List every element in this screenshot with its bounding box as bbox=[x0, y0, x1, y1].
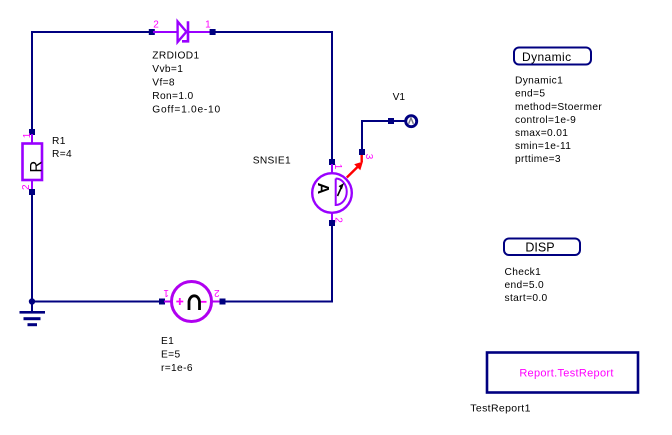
svg-text:Report.TestReport: Report.TestReport bbox=[519, 367, 613, 379]
current sensor SNSIE1 bbox=[312, 159, 352, 226]
svg-text:Vf=8: Vf=8 bbox=[152, 78, 175, 89]
svg-text:end=5: end=5 bbox=[515, 89, 545, 100]
svg-text:V1: V1 bbox=[393, 92, 406, 103]
svg-text:method=Stoermer: method=Stoermer bbox=[515, 102, 602, 113]
Dynamic parameter labels bbox=[515, 76, 602, 166]
wire left column lower bbox=[31, 193, 33, 303]
svg-text:control=1e-9: control=1e-9 bbox=[515, 115, 576, 126]
svg-text:2: 2 bbox=[332, 217, 343, 223]
svg-text:DISP: DISP bbox=[525, 241, 554, 255]
svg-text:1: 1 bbox=[22, 132, 33, 138]
wire bottom row left segment bbox=[31, 301, 162, 303]
wire top row left segment bbox=[31, 31, 152, 33]
svg-text:Goff=1.0e-10: Goff=1.0e-10 bbox=[152, 105, 221, 116]
wire left column upper bbox=[31, 31, 33, 131]
svg-text:smin=1e-11: smin=1e-11 bbox=[515, 141, 571, 152]
svg-text:2: 2 bbox=[214, 287, 220, 298]
E1 parameter labels bbox=[161, 336, 193, 374]
svg-text:R=4: R=4 bbox=[52, 149, 72, 160]
svg-text:A: A bbox=[314, 183, 331, 195]
svg-text:E=5: E=5 bbox=[161, 350, 180, 361]
svg-text:end=5.0: end=5.0 bbox=[505, 280, 545, 291]
wire top row right segment bbox=[212, 31, 333, 33]
DISP box bbox=[504, 239, 580, 256]
svg-text:Vvb=1: Vvb=1 bbox=[152, 64, 183, 75]
svg-text:E1: E1 bbox=[161, 336, 174, 347]
V1 connector bbox=[359, 116, 417, 155]
svg-text:Dynamic1: Dynamic1 bbox=[515, 76, 563, 87]
svg-text:2: 2 bbox=[153, 20, 159, 31]
svg-text:2: 2 bbox=[21, 184, 32, 190]
ground symbol bbox=[20, 302, 46, 327]
resistor R1 bbox=[23, 129, 46, 195]
svg-text:1: 1 bbox=[163, 287, 169, 298]
svg-text:TestReport1: TestReport1 bbox=[470, 402, 530, 414]
svg-text:start=0.0: start=0.0 bbox=[505, 293, 548, 304]
svg-text:1: 1 bbox=[332, 164, 343, 170]
wire right column lower bbox=[331, 223, 333, 302]
svg-text:smax=0.01: smax=0.01 bbox=[515, 128, 568, 139]
wire bottom row right segment bbox=[222, 301, 333, 303]
svg-text:prttime=3: prttime=3 bbox=[515, 154, 561, 165]
wire V1 horizontal bbox=[361, 120, 405, 122]
DISP parameter labels bbox=[505, 267, 548, 304]
svg-text:Ron=1.0: Ron=1.0 bbox=[152, 91, 193, 102]
diode parameter labels bbox=[152, 51, 221, 116]
Dynamic experiment box bbox=[514, 48, 591, 65]
wire right column upper bbox=[331, 31, 333, 161]
svg-text:1: 1 bbox=[205, 20, 211, 31]
sensor red arrow to pin 3 bbox=[347, 153, 363, 178]
svg-text:R: R bbox=[28, 161, 46, 173]
svg-text:Dynamic: Dynamic bbox=[522, 50, 571, 64]
svg-text:Check1: Check1 bbox=[505, 267, 542, 278]
svg-text:R1: R1 bbox=[52, 136, 66, 147]
svg-text:SNSIE1: SNSIE1 bbox=[253, 155, 291, 166]
voltage source E1 bbox=[159, 282, 226, 322]
zener diode ZRDIOD1 bbox=[149, 21, 216, 42]
svg-text:ZRDIOD1: ZRDIOD1 bbox=[152, 51, 199, 62]
Report.TestReport box bbox=[487, 353, 638, 393]
junction node at ground bbox=[29, 298, 35, 304]
wire V1 vertical bbox=[361, 121, 363, 152]
svg-text:r=1e-6: r=1e-6 bbox=[161, 363, 193, 374]
